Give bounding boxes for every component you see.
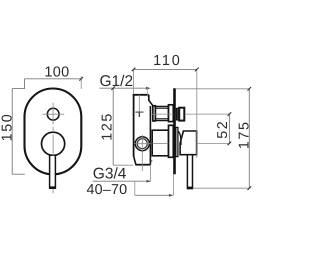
label G3/4 with leader: [93, 166, 151, 183]
dimension 125: [111, 86, 133, 165]
svg-text:G1/2: G1/2: [100, 73, 134, 90]
G3/4 port circles: [135, 137, 149, 151]
svg-text:150: 150: [0, 113, 15, 142]
svg-text:110: 110: [153, 53, 182, 69]
wall plate edge-on: [173, 88, 176, 174]
outlet axis extension: [185, 113, 230, 115]
label 150: [0, 113, 15, 142]
svg-text:175: 175: [236, 120, 252, 149]
svg-text:G3/4: G3/4: [93, 166, 127, 183]
inlet port mark (cross) inside body: [135, 95, 143, 117]
outlet small cylinder: [178, 109, 179, 120]
handle lever (side view): [187, 155, 193, 189]
vertical centerline (front view): [52, 103, 54, 194]
outlet cylinder: [155, 107, 168, 121]
label 110: [153, 53, 182, 69]
G3/4 port crosshair: [134, 135, 151, 171]
dimension 150 (plate height): [12, 89, 25, 175]
label 100: [44, 65, 69, 81]
label 125: [99, 112, 115, 141]
handle escutcheon: [176, 127, 178, 156]
label 52: [215, 120, 231, 139]
handle lever (front view): [49, 155, 56, 188]
dimension 100 (plate width): [12, 76, 83, 89]
diverter knob circle: [47, 108, 59, 120]
cartridge flange ring: [169, 125, 174, 157]
svg-text:100: 100: [44, 65, 69, 81]
outlet flange: [153, 106, 156, 121]
dimension 175: [176, 87, 251, 190]
outlet axis inside cylinder: [152, 113, 174, 115]
svg-text:52: 52: [215, 120, 231, 139]
valve body (side view): [133, 94, 153, 165]
svg-text:40–70: 40–70: [87, 182, 128, 198]
cartridge housing: [152, 130, 168, 156]
cartridge axis inside housing: [153, 143, 169, 145]
diverter knob horizontal crosshair: [42, 113, 64, 115]
dimension 110 (depth): [132, 68, 199, 158]
G1/2 port centerline above body: [147, 88, 149, 97]
label G1/2 with leader: [100, 73, 151, 90]
handle base circle: [42, 132, 65, 155]
cartridge axis extension: [197, 142, 230, 144]
outlet end cap: [179, 108, 184, 121]
label 40-70 with leader: [87, 181, 174, 198]
outlet flange ring: [169, 105, 174, 122]
handle knob (side view): [178, 131, 197, 155]
outlet nut: [176, 108, 177, 120]
label 175: [236, 120, 252, 149]
dimension 52: [228, 112, 232, 145]
trim plate oval (front view): [25, 89, 82, 175]
wall range extension lines: [151, 165, 174, 195]
svg-text:125: 125: [99, 112, 115, 141]
